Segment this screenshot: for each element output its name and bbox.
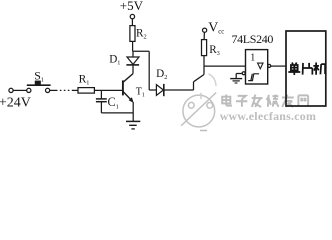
- svg-text:74LS240: 74LS240: [232, 32, 274, 46]
- svg-text:1: 1: [250, 52, 255, 63]
- svg-text:www.elecfans.com: www.elecfans.com: [220, 109, 316, 123]
- svg-text:+24V: +24V: [0, 95, 31, 110]
- svg-text:+5V: +5V: [120, 0, 144, 13]
